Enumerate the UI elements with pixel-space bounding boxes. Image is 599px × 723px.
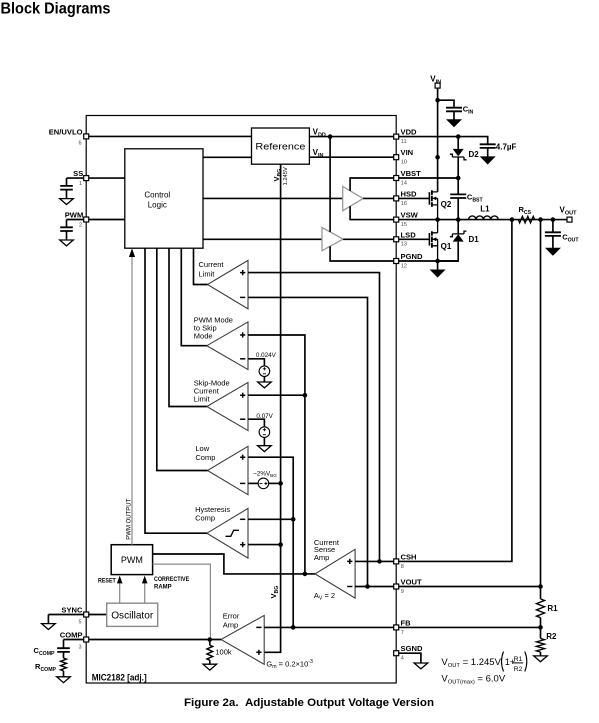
capacitor CCOMP — [57, 648, 70, 652]
PWM block — [111, 545, 152, 575]
wire Control Logic to HSD driver — [203, 197, 343, 199]
svg-text:PGND: PGND — [401, 252, 423, 261]
pin PGND (12) — [394, 259, 399, 264]
svg-text:VOUT: VOUT — [401, 578, 422, 587]
wire VOUT row — [399, 586, 541, 588]
wire low comp + / FB sense line — [248, 457, 293, 627]
IC body MIC2182 outline — [86, 116, 396, 684]
wire CBST leads — [457, 178, 459, 220]
svg-text:Reference: Reference — [255, 142, 305, 153]
svg-text:VIN: VIN — [401, 148, 414, 157]
wire current limit - to VOUT node — [248, 297, 368, 586]
svg-text:Low: Low — [195, 444, 209, 453]
capacitor on PWM — [60, 227, 73, 231]
wire current limit output to control logic — [194, 248, 208, 284]
svg-text:VSW: VSW — [401, 211, 419, 220]
ground (0.024V source) — [258, 382, 272, 388]
svg-text:Comp: Comp — [195, 453, 215, 462]
wire PWM block to COMP node (gray) — [153, 564, 211, 637]
wire error amp - to FB pin — [264, 626, 393, 628]
svg-text:Amp: Amp — [314, 553, 329, 562]
svg-text:COMP: COMP — [60, 631, 83, 640]
junction VSW / Q2 source / Q1 drain — [435, 217, 440, 222]
junction hysteresis - / FB line — [291, 517, 296, 522]
svg-text:D1: D1 — [469, 235, 480, 244]
svg-text:PWM: PWM — [121, 555, 143, 565]
wire D2 leads — [457, 137, 459, 178]
junction current limit + / CSH row — [377, 559, 382, 564]
junction FB line on FB row — [291, 625, 296, 630]
driver (low-side) — [322, 228, 343, 251]
svg-text:MIC2182 [adj.]: MIC2182 [adj.] — [92, 672, 147, 682]
resistor R2 — [537, 639, 545, 653]
svg-text:VDD: VDD — [401, 128, 418, 137]
wire hysteresis output to control logic — [145, 248, 207, 533]
wire PWM mode - to 0.024V source — [248, 359, 264, 366]
wire current sense high line to CSH row — [399, 220, 512, 562]
wire CSA - to VOUT pin — [355, 586, 393, 588]
svg-text:14: 14 — [401, 180, 407, 186]
pin VSW (15) — [394, 217, 399, 222]
svg-text:100k: 100k — [215, 648, 232, 657]
wire EN/UVLO to Reference — [88, 135, 252, 137]
svg-text:1.245V: 1.245V — [283, 167, 289, 186]
pin CSH (8) — [394, 559, 399, 564]
wire CSA + to CSH pin — [355, 560, 393, 562]
junction 2% source / VBG rail — [278, 481, 283, 486]
junction VOUT row / R1 — [538, 584, 543, 589]
pin VDD (11) — [394, 134, 399, 139]
wire FB row — [399, 626, 541, 628]
svg-text:RESET: RESET — [98, 579, 116, 585]
wire COUT leads — [552, 220, 554, 249]
wire VDD to low-side driver top — [329, 137, 331, 232]
wire D1 leads to PGND — [440, 220, 458, 261]
comparator: hysteresis comp — [207, 508, 248, 558]
junction VBST / D2 / CBST — [456, 176, 461, 181]
wire RESET: oscillator to PWM (gray with arrow) — [119, 578, 121, 603]
wire skip-mode + row — [248, 394, 305, 396]
wire PWM mode + to current sense signal — [248, 335, 305, 574]
ground (COUT) — [546, 248, 560, 255]
svg-text:HSD: HSD — [401, 189, 418, 198]
svg-text:3: 3 — [78, 645, 81, 651]
voltage source ~2% VBG — [258, 478, 269, 489]
resistor RCS — [518, 216, 534, 222]
junction RCS / VOUT rail — [538, 217, 543, 222]
wire PWM row — [67, 219, 125, 221]
svg-text:CSH: CSH — [401, 552, 417, 561]
pin SGND (4) — [394, 651, 399, 656]
pin VOUT (9) — [394, 584, 399, 589]
wire COMP row — [64, 639, 87, 641]
wire SYNC row — [48, 614, 106, 616]
ground (SYNC) — [42, 624, 56, 630]
capacitor 4.7uF — [480, 144, 496, 148]
svg-text:CORRECTIVE: CORRECTIVE — [154, 577, 189, 583]
svg-text:11: 11 — [401, 139, 407, 145]
capacitor CIN — [446, 108, 462, 112]
svg-text:Oscillator: Oscillator — [111, 609, 153, 621]
wire CIN branch — [438, 100, 454, 120]
wire hysteresis + to VBG rail — [248, 544, 281, 546]
svg-text:2: 2 — [79, 223, 82, 229]
pin COMP (3) — [84, 637, 89, 642]
svg-text:RAMP: RAMP — [154, 585, 172, 591]
svg-text:Amp: Amp — [223, 620, 238, 629]
wire RCOMP to ground — [63, 671, 65, 677]
wire 0.024V source to ground — [263, 377, 265, 383]
wire VIN rail down to Q2 drain — [437, 88, 439, 192]
ground (CIN) — [447, 120, 461, 127]
pin SS (1) — [84, 176, 89, 181]
junction skip-mode + on sense line — [303, 393, 308, 398]
control logic block — [125, 149, 203, 248]
svg-text:6: 6 — [78, 141, 81, 147]
svg-text:PWM OUTPUT: PWM OUTPUT — [127, 498, 133, 539]
resistor RCOMP — [61, 658, 67, 671]
wire VBST row — [399, 177, 458, 179]
svg-text:SYNC: SYNC — [61, 606, 83, 615]
svg-text:D2: D2 — [469, 150, 480, 159]
comparator: PWM mode to skip mode — [207, 322, 248, 370]
wire PGND row — [399, 260, 458, 262]
pin PWM (2) — [84, 217, 89, 222]
inductor L1 — [469, 216, 499, 220]
junction L1 / RCS / current sense line — [510, 217, 515, 222]
wire Reference VDD output to VDD pin — [309, 136, 393, 138]
wire SGND to ground — [399, 653, 421, 663]
ground (SS cap) — [60, 199, 74, 205]
wire low-side driver bottom to PGND — [330, 246, 399, 261]
svg-text:Comp: Comp — [195, 514, 215, 523]
ground (SGND) — [414, 663, 428, 669]
wire VBG rail from Reference to Error Amp + — [264, 164, 280, 652]
comparator: skip-mode current limit — [207, 382, 248, 430]
oscillator block — [107, 603, 158, 626]
wire SS capacitor leads — [66, 178, 68, 199]
wire error amp output to COMP pin — [88, 639, 221, 641]
resistor 100k — [207, 645, 213, 660]
ground (PGND) — [431, 270, 445, 277]
wire CORRECTIVE RAMP: oscillator to PWM (gray with arrow) — [144, 578, 146, 603]
svg-text:5: 5 — [78, 620, 81, 626]
capacitor on SS — [60, 186, 73, 190]
wire LSD driver output to LSD pin and Q1 gate — [343, 238, 429, 240]
svg-text:PWM: PWM — [65, 211, 84, 220]
svg-text:Q1: Q1 — [441, 242, 452, 251]
svg-text:4.7µF: 4.7µF — [496, 142, 517, 151]
capacitor COUT — [545, 232, 561, 236]
svg-text:9: 9 — [401, 589, 404, 595]
ground (4.7uF) — [481, 157, 495, 164]
junction FB row / R1 R2 divider — [538, 625, 543, 630]
wire 100k resistor leads — [209, 640, 211, 665]
svg-text:10: 10 — [401, 160, 407, 166]
svg-text:1: 1 — [79, 181, 82, 187]
svg-text:Limit: Limit — [199, 269, 216, 278]
pin SYNC (5) — [84, 612, 89, 617]
wire VSW to high-side driver bottom — [350, 206, 399, 219]
svg-text:Block Diagrams: Block Diagrams — [1, 1, 111, 18]
pin VBST (14) — [394, 176, 399, 181]
wire VOUT rail down through R1 R2 — [540, 220, 542, 656]
wire PGND to ground — [437, 261, 439, 270]
ground (RCOMP) — [57, 677, 71, 683]
wire CSA output to PWM block — [153, 554, 315, 574]
resistor R1 — [537, 599, 545, 618]
svg-text:Limit: Limit — [194, 394, 211, 403]
wire SS row — [67, 177, 125, 179]
ground (100k) — [203, 664, 217, 670]
voltage source 0.07V — [259, 427, 270, 438]
wire skip-mode - to 0.07V source — [248, 419, 264, 427]
wire VSW row to VOUT terminal — [399, 219, 567, 221]
junction PGND / ground — [435, 259, 440, 264]
wire low comp output to control logic — [157, 248, 208, 470]
wire VBST to high-side driver top — [350, 178, 399, 191]
driver (high-side) — [343, 186, 363, 210]
ground (0.07V source) — [258, 446, 272, 452]
svg-text:Control: Control — [144, 190, 170, 199]
junction CSA output / comparator sense line — [303, 572, 308, 577]
pin EN/UVLO (6) — [84, 134, 89, 139]
terminal VIN — [435, 83, 440, 88]
svg-text:LSD: LSD — [401, 230, 417, 239]
ground (PWM cap) — [60, 240, 74, 246]
wire Control Logic to LSD driver — [203, 238, 322, 240]
svg-text:Logic: Logic — [148, 200, 167, 209]
transistor Q2 (high-side N-MOSFET) — [429, 190, 437, 219]
wire SYNC to ground — [47, 615, 49, 624]
svg-text:SS: SS — [73, 169, 83, 178]
op-amp: error amp — [221, 615, 264, 664]
wire 0.07V source to ground — [263, 437, 265, 445]
junction VSW / CBST / D1 — [456, 217, 461, 222]
svg-text:15: 15 — [401, 222, 407, 228]
svg-text:EN/UVLO: EN/UVLO — [49, 128, 83, 137]
comparator: current limit — [208, 260, 249, 309]
svg-text:0.024V: 0.024V — [256, 352, 277, 359]
junction VDD row / low-side driver supply — [328, 134, 333, 139]
svg-text:FB: FB — [401, 618, 412, 627]
svg-text:R1: R1 — [514, 656, 523, 663]
terminal VOUT — [567, 217, 572, 222]
wire Reference VIN input to VIN pin — [309, 156, 393, 158]
svg-text:Error: Error — [223, 611, 240, 620]
wire 2% source to VBG rail — [269, 482, 281, 484]
junction hysteresis + / VBG rail — [278, 542, 283, 547]
wire hysteresis - to FB line — [248, 518, 293, 520]
svg-text:16: 16 — [401, 201, 407, 207]
svg-text:0.07V: 0.07V — [256, 413, 273, 420]
svg-text:R2: R2 — [546, 632, 557, 641]
junction VIN rail / VIN pin row — [435, 155, 440, 160]
svg-text:L1: L1 — [480, 205, 490, 214]
wire PWM mode output to control logic — [181, 248, 207, 346]
wire HSD driver output to HSD pin and Q2 gate — [363, 197, 429, 199]
svg-text:R2: R2 — [514, 666, 523, 673]
svg-text:12: 12 — [401, 263, 407, 269]
wire current limit + to CSH node — [248, 273, 380, 562]
transistor Q1 (low-side N-MOSFET) — [429, 220, 437, 261]
voltage source 0.024V — [259, 366, 270, 377]
svg-text:7: 7 — [401, 630, 404, 636]
reference block — [252, 128, 310, 164]
svg-text:R1: R1 — [547, 604, 558, 613]
wire VDD row to 4.7uF cap — [399, 137, 488, 157]
svg-text:4: 4 — [401, 656, 404, 662]
op-amp: current sense amp — [315, 549, 355, 598]
svg-text:VBST: VBST — [401, 169, 422, 178]
wire PWM output to control logic (gray) — [131, 251, 133, 545]
svg-text:Figure 2a. Adjustable Output: Figure 2a. Adjustable Output Voltage Ver… — [184, 697, 434, 709]
capacitor CBST — [450, 194, 466, 198]
diode D2 (Schottky) — [450, 149, 467, 160]
wire Control Logic to Reference — [203, 156, 252, 158]
wire COMP compensation leads — [63, 640, 65, 659]
svg-text:Q2: Q2 — [441, 200, 452, 209]
junction VDD row / D2 branch — [456, 134, 461, 139]
junction current limit - / VOUT row — [365, 584, 370, 589]
formula VOUT = 1.245V(1+R1/R2) — [441, 652, 526, 673]
wire PWM capacitor leads — [66, 220, 68, 241]
svg-text:Current: Current — [199, 260, 225, 269]
hysteresis symbol — [226, 530, 239, 536]
junction 100k / PWM feedback on COMP row — [208, 637, 213, 642]
junction COUT tap — [551, 217, 556, 222]
pin HSD (16) — [394, 196, 399, 201]
svg-text:13: 13 — [401, 242, 407, 248]
svg-text:Mode: Mode — [194, 332, 213, 341]
pin VIN (10) — [394, 155, 399, 160]
svg-text:SGND: SGND — [401, 644, 423, 653]
ground (R2) — [534, 656, 548, 662]
wire low comp - to 2% source — [248, 482, 258, 484]
arrowhead PWM output into control logic — [129, 248, 135, 257]
svg-text:8: 8 — [401, 564, 404, 570]
pin LSD (13) — [394, 237, 399, 242]
diode D1 (Schottky) — [450, 231, 467, 242]
comparator: low comp — [208, 446, 249, 494]
junction VIN rail / CIN — [435, 98, 440, 103]
wire skip-mode output to control logic — [169, 248, 207, 406]
pin FB (7) — [394, 625, 399, 630]
